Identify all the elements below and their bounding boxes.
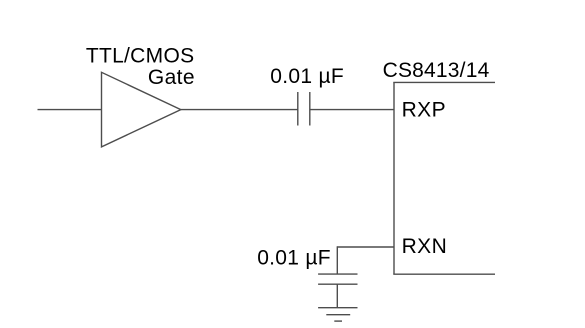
svg-text:0.01 µF: 0.01 µF [270,65,344,88]
ground [318,308,357,321]
svg-text:Gate: Gate [148,66,195,89]
wire C1 to RXP pin [310,109,394,111]
op-amp U1 TTL/CMOS gate buffer [102,72,181,147]
wire C2 to ground [336,284,338,308]
wire RXN pin stub [337,246,394,248]
label TTL/CMOS Gate [86,45,195,89]
svg-text:TTL/CMOS: TTL/CMOS [86,45,195,68]
svg-text:RXP: RXP [402,98,446,121]
capacitor C2 0.01 uF shunt [318,274,357,284]
wire RXN down to C2 [336,246,338,274]
wire gate output to C1 [181,109,298,111]
svg-text:RXN: RXN [402,235,448,258]
svg-text:CS8413/14: CS8413/14 [383,59,490,82]
svg-text:0.01 µF: 0.01 µF [257,246,331,269]
IC U2 CS8413/14 outline [393,82,495,274]
wire input to gate [38,109,102,111]
capacitor C1 0.01 uF series [298,92,310,126]
